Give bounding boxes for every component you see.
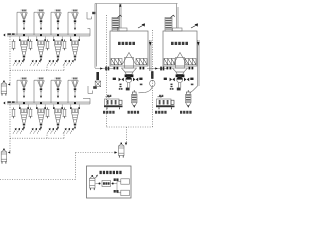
discharge hopper B1: [21, 109, 28, 129]
conveying pipe beside silo 1: [149, 40, 152, 71]
drop pipe under silo 1: [126, 83, 130, 91]
discharge hopper A2: [38, 41, 45, 61]
vent hook of group B: [88, 86, 97, 94]
pinch valve on silo1 pipe: [151, 71, 153, 79]
drop pipe under silo 2: [177, 83, 181, 91]
branch lines: [114, 182, 121, 193]
label screw pump 2: [180, 111, 192, 114]
label text 1# inside 1#: [118, 42, 135, 45]
hanger rods of B3: [53, 105, 63, 110]
load cell / small cylinder of B4: [63, 108, 67, 119]
side arrows under silo 1: [113, 78, 143, 80]
dust filter on 1#: [112, 15, 122, 31]
dotted feed line to air receiver: [76, 151, 118, 153]
outlet box 1: [114, 178, 130, 184]
weigh hopper B1: [17, 77, 27, 104]
weigh hopper A1: [17, 9, 27, 36]
discharge hopper A4: [72, 41, 79, 61]
weigh pot under silo 1: [126, 77, 132, 83]
level indicator flag on 2#: [191, 23, 198, 28]
weigh hopper B4: [68, 77, 78, 104]
feed pipe flange of 1#: [118, 28, 128, 31]
belt A end pulley step: [88, 29, 91, 36]
blower pot on silo1 pipe: [150, 80, 155, 86]
discharge throat under silo 1: [125, 58, 134, 69]
load cell / small cylinder of A2: [29, 40, 33, 51]
side arrows under silo 2: [164, 78, 194, 80]
discharge cone inside 2#: [174, 53, 187, 65]
discharge hopper A3: [55, 41, 62, 61]
box title text: [100, 171, 122, 174]
compressor vessel: [90, 175, 96, 190]
hanger rods of A3: [53, 37, 63, 42]
filter box: [102, 181, 111, 187]
discharge hopper stack under silo 1: [122, 68, 137, 77]
pneumatic discharge arrows A2: [30, 60, 41, 66]
dotted air line of group A: [10, 64, 64, 70]
screw pump 1: [132, 90, 138, 108]
valve left butterfly valve of silo 1: [119, 78, 121, 82]
curve from blower to pump 1: [139, 87, 153, 93]
load cell / small cylinder of B2: [29, 108, 33, 119]
mixer 1: [104, 95, 123, 109]
discharge throat under silo 2: [176, 58, 185, 69]
arrow at vessel: [96, 175, 98, 178]
level indicator flag on 1#: [138, 23, 145, 28]
hanger rods of A4: [70, 37, 80, 42]
label text 2# inside 2#: [171, 42, 188, 45]
dotted air line of group B: [10, 132, 64, 138]
pneumatic discharge arrows B3: [47, 128, 58, 134]
weigh hopper B2: [34, 77, 44, 104]
pneumatic discharge arrows B1: [13, 128, 24, 134]
hanger rods of B1: [19, 105, 29, 110]
solenoid stack beside silo 1: [119, 84, 123, 90]
feed pipe flange of 2#: [173, 28, 183, 31]
solenoid stack beside silo 2: [170, 84, 174, 90]
pipe flange mark of silo 2: [191, 84, 194, 86]
aeration valves under 1#: [114, 67, 145, 70]
valve left butterfly valve of silo 2: [170, 78, 172, 82]
transfer line to silo1 discharge: [95, 67, 114, 71]
belt B end pulley step: [83, 98, 90, 104]
dotted line left of silo 1: [106, 15, 108, 127]
hanger rods of A2: [36, 37, 46, 42]
vent hook of group A: [87, 12, 96, 19]
weigh pot under silo 2: [177, 77, 183, 83]
pneumatic discharge arrows A3: [47, 60, 58, 66]
aeration valves under 2#: [167, 67, 194, 70]
label mixer 1: [103, 111, 115, 114]
valve on drop leg: [95, 72, 100, 87]
discharge cone inside 1#: [123, 53, 136, 65]
junction dot 1: [96, 183, 101, 185]
weigh hopper A3: [51, 9, 61, 36]
load cell / small cylinder of B3: [46, 108, 50, 119]
load cell / small cylinder of A1: [12, 40, 16, 51]
load cell / small cylinder of A3: [46, 40, 50, 51]
hanger rods of B2: [36, 105, 46, 110]
belt conveyor bus B: [3, 101, 90, 104]
dotted drop to compressor tank: [125, 127, 127, 145]
pneumatic discharge arrows B2: [30, 128, 41, 134]
main conveying pipe riser: [95, 4, 97, 69]
outlet box 2: [114, 190, 130, 196]
weigh hopper A2: [34, 9, 44, 36]
conveying pipe beside silo 2: [190, 40, 200, 93]
feed riser into silo 1: [119, 4, 121, 29]
junction dot 2: [111, 183, 114, 185]
discharge hopper B2: [38, 109, 45, 129]
valve right butterfly valve of silo 1: [133, 78, 135, 82]
aeration cells right of cone in 1#: [136, 59, 147, 65]
dust filter on 2#: [165, 15, 175, 31]
dotted riser from control room: [75, 153, 77, 180]
additive tank A: [1, 81, 7, 96]
feed riser into silo 2: [177, 4, 179, 29]
pipe flange mark of silo 1: [140, 84, 143, 86]
hanger rods of B4: [70, 105, 80, 110]
weigh hopper A4: [68, 9, 78, 36]
dotted line to left edge: [0, 179, 76, 181]
transfer line to silo2 discharge: [147, 67, 167, 71]
screw pump 2: [186, 90, 192, 108]
valve right butterfly valve of silo 2: [184, 78, 186, 82]
air receiver tank: [119, 143, 125, 158]
weigh hopper B3: [51, 77, 61, 104]
label mixer 2: [155, 111, 167, 114]
pneumatic discharge arrows A1: [13, 60, 24, 66]
label screw pump 1: [128, 111, 140, 114]
control room box: [87, 166, 132, 198]
discharge hopper B3: [55, 109, 62, 129]
additive tank B: [1, 149, 7, 164]
top header pipe: [95, 3, 178, 5]
dotted line left of silo 2: [152, 30, 154, 127]
discharge hopper A1: [21, 41, 28, 61]
belt conveyor bus A: [3, 33, 90, 36]
discharge hopper stack under silo 2: [173, 68, 188, 77]
aeration cells right of cone in 2#: [185, 59, 196, 65]
discharge hopper B4: [72, 109, 79, 129]
cement silo 1# body: [110, 31, 148, 66]
pneumatic discharge arrows A4: [63, 60, 74, 66]
load cell / small cylinder of A4: [63, 40, 67, 51]
pneumatic discharge arrows B4: [63, 128, 74, 134]
dotted cross line: [107, 126, 153, 128]
dotted drop to air tank A: [8, 37, 10, 86]
dotted drop to air tank B: [8, 105, 10, 154]
cement silo 2# body: [163, 31, 197, 66]
aeration cells left of cone in 2#: [164, 59, 175, 65]
mixer 2: [156, 95, 175, 109]
load cell / small cylinder of B1: [12, 108, 16, 119]
aeration cells left of cone in 1#: [111, 59, 122, 65]
hanger rods of A1: [19, 37, 29, 42]
